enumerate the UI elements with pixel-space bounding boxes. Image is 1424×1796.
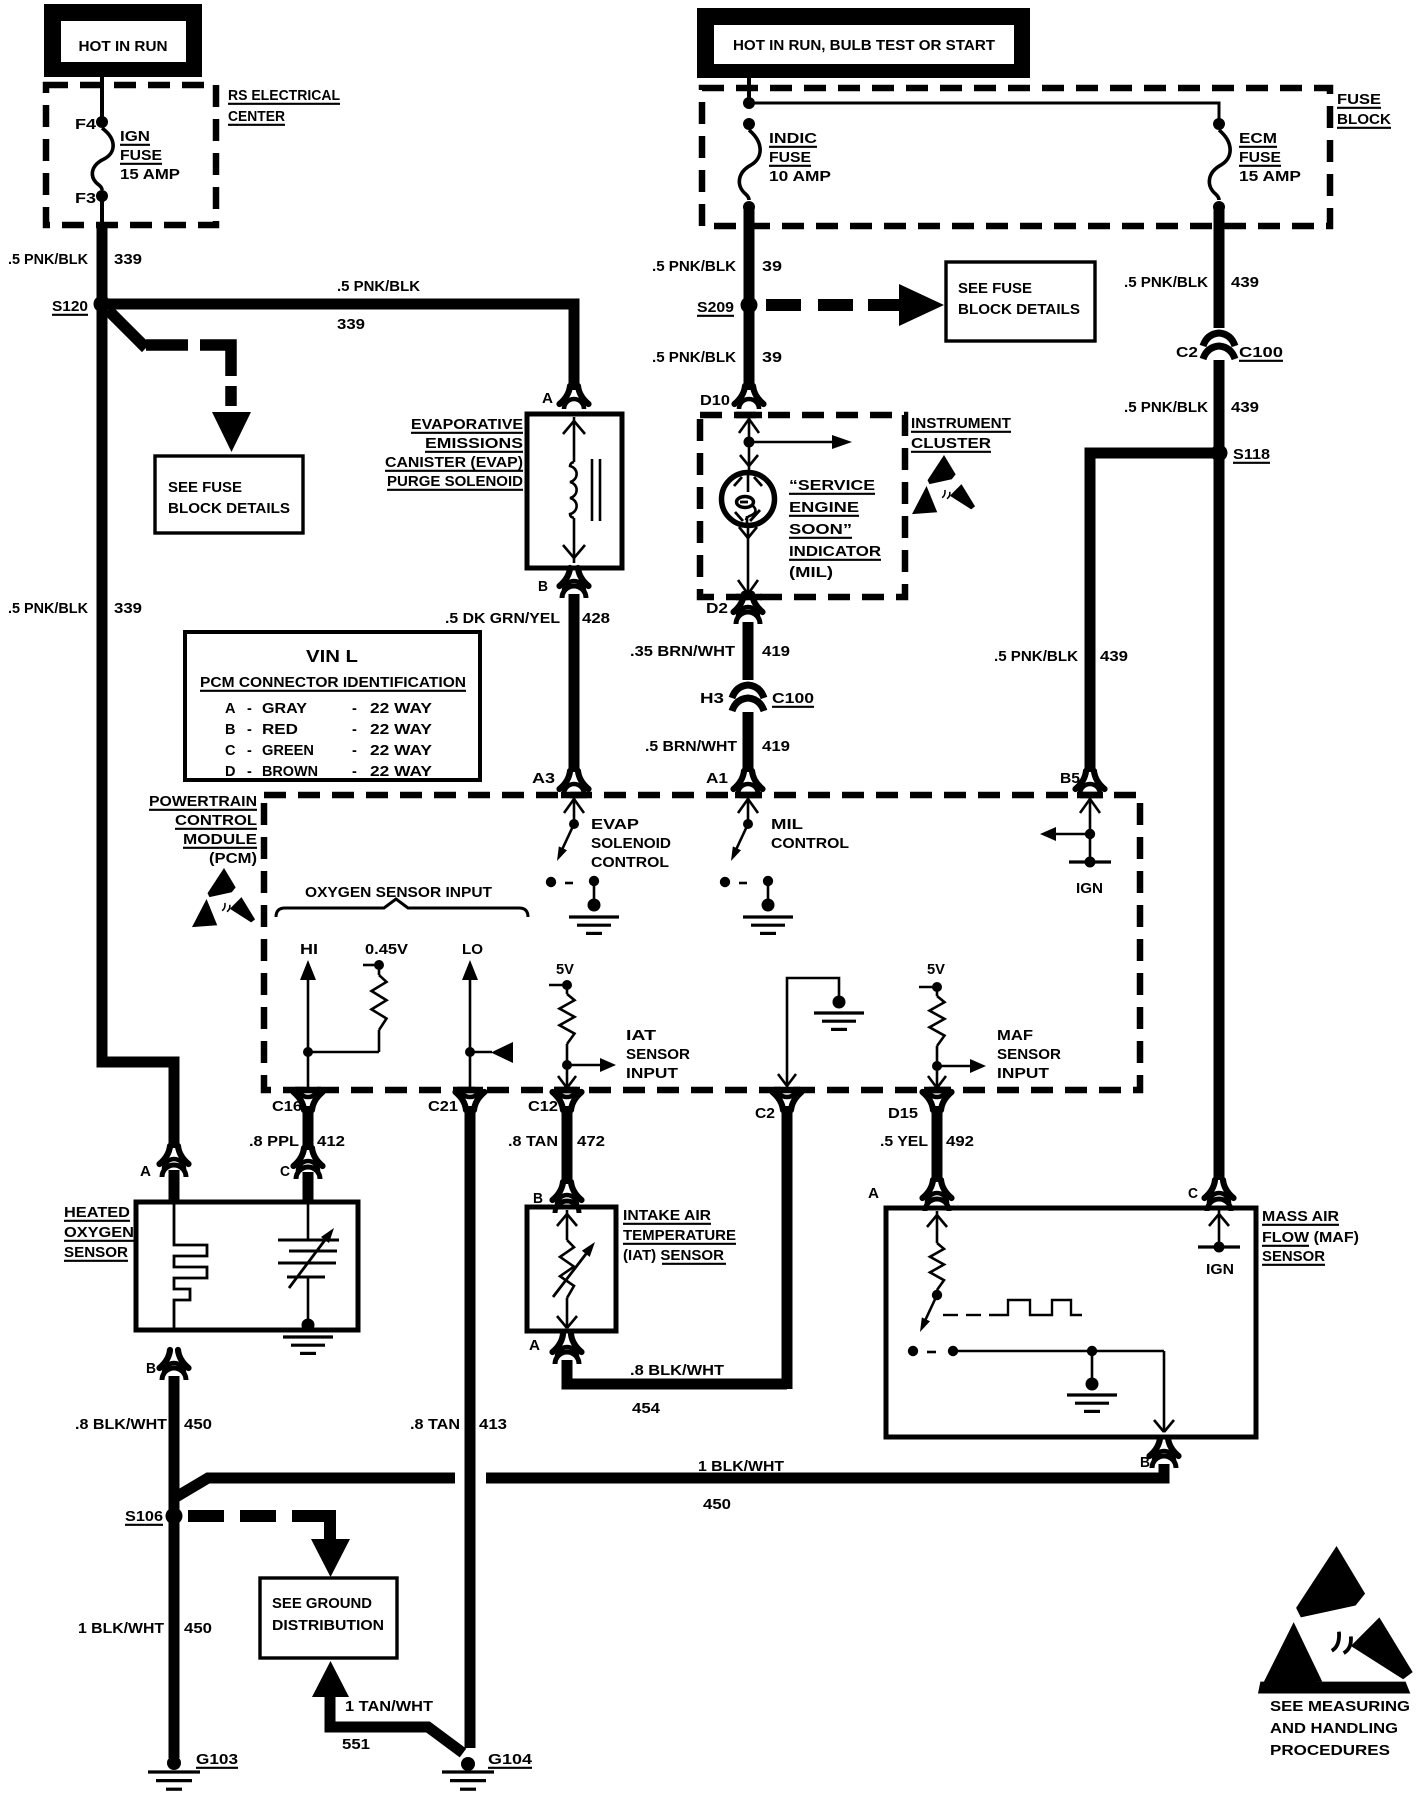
svg-text:.5 PNK/BLK: .5 PNK/BLK xyxy=(1124,400,1209,416)
box POWERTRAIN CONTROL MODULE (dashed) xyxy=(264,795,1140,1090)
label RS ELECTRICAL CENTER xyxy=(228,88,340,125)
svg-text:OXYGEN: OXYGEN xyxy=(64,1225,134,1241)
svg-text:15 AMP: 15 AMP xyxy=(120,167,180,183)
connector C12 xyxy=(528,1087,582,1115)
svg-text:S106: S106 xyxy=(125,1509,163,1525)
label .8 PPL 412 xyxy=(249,1134,345,1150)
svg-text:MASS AIR: MASS AIR xyxy=(1262,1209,1340,1225)
svg-text:CONTROL: CONTROL xyxy=(175,813,257,829)
svg-text:C: C xyxy=(225,743,236,759)
svg-text:.8 BLK/WHT: .8 BLK/WHT xyxy=(630,1363,724,1379)
svg-text:DISTRIBUTION: DISTRIBUTION xyxy=(272,1618,384,1634)
net C2 internal ground xyxy=(778,978,864,1088)
svg-text:5V: 5V xyxy=(556,962,574,978)
label .8 BLK/WHT 450 xyxy=(75,1417,212,1433)
svg-text:POWERTRAIN: POWERTRAIN xyxy=(149,794,257,810)
svg-text:10 AMP: 10 AMP xyxy=(769,169,831,185)
node fuse block feed xyxy=(743,97,755,109)
terminal F3 xyxy=(75,190,108,207)
svg-text:.8 TAN: .8 TAN xyxy=(410,1417,460,1433)
wire C12 pigtail .8 TAN 472 xyxy=(562,1106,573,1184)
svg-text:39: 39 xyxy=(762,350,782,366)
svg-text:“SERVICE: “SERVICE xyxy=(789,478,875,494)
IAT thermistor element xyxy=(553,1210,595,1328)
label .5 PNK/BLK 439 mid xyxy=(1124,400,1259,416)
svg-text:C: C xyxy=(280,1164,290,1180)
wire bulb to D2 with arrow xyxy=(738,525,758,594)
label MASS AIR FLOW (MAF) SENSOR xyxy=(1262,1209,1359,1265)
connector B5 xyxy=(1060,771,1105,794)
label 1 TAN/WHT 551 xyxy=(342,1699,433,1753)
svg-text:-: - xyxy=(352,743,357,759)
svg-text:B: B xyxy=(1140,1455,1150,1471)
svg-text:HI: HI xyxy=(300,942,318,958)
connector D10 xyxy=(700,386,764,409)
wire .5 PNK/BLK 339 (S120 to EVAP solenoid) xyxy=(102,304,574,390)
svg-text:(PCM): (PCM) xyxy=(209,851,257,867)
svg-text:-: - xyxy=(352,722,357,738)
terminal F4 xyxy=(75,116,108,133)
svg-text:OXYGEN SENSOR INPUT: OXYGEN SENSOR INPUT xyxy=(305,885,492,901)
svg-text:419: 419 xyxy=(762,644,790,660)
svg-text:EMISSIONS: EMISSIONS xyxy=(425,436,523,452)
svg-text:0.45V: 0.45V xyxy=(365,942,408,958)
connector D2 xyxy=(706,594,763,624)
svg-text:A: A xyxy=(140,1164,152,1180)
svg-text:B: B xyxy=(146,1361,156,1377)
MAF internal IGN xyxy=(1198,1210,1240,1278)
svg-text:454: 454 xyxy=(632,1401,660,1417)
MAF signal squiggle xyxy=(943,1300,1082,1315)
svg-text:C12: C12 xyxy=(528,1099,558,1115)
svg-text:.5 PNK/BLK: .5 PNK/BLK xyxy=(337,279,421,295)
svg-text:SOON”: SOON” xyxy=(789,522,852,538)
splice S106 xyxy=(125,1508,183,1526)
wire .5 PNK/BLK 439 (fuse to C100) xyxy=(1214,207,1225,328)
svg-text:450: 450 xyxy=(184,1417,212,1433)
svg-text:PURGE SOLENOID: PURGE SOLENOID xyxy=(387,474,523,490)
svg-text:1 TAN/WHT: 1 TAN/WHT xyxy=(345,1699,433,1715)
svg-text:INPUT: INPUT xyxy=(626,1066,678,1082)
svg-text:FUSE: FUSE xyxy=(120,148,162,164)
svg-text:.5 DK GRN/YEL: .5 DK GRN/YEL xyxy=(445,611,560,627)
HO2S sensing element xyxy=(278,1204,339,1332)
svg-text:S209: S209 xyxy=(697,300,734,316)
svg-text:339: 339 xyxy=(337,317,365,333)
wire F3 to RS box edge xyxy=(100,200,104,223)
wire C16 pigtail .8 PPL 412 xyxy=(303,1106,314,1150)
splice S209 xyxy=(697,297,758,317)
svg-text:492: 492 xyxy=(946,1134,974,1150)
arrow cluster to right xyxy=(749,435,852,449)
svg-text:MAF: MAF xyxy=(997,1028,1033,1044)
svg-text:MIL: MIL xyxy=(771,817,803,833)
svg-text:BLOCK: BLOCK xyxy=(1337,112,1392,128)
wire HOT IN RUN to F4 xyxy=(100,77,104,118)
svg-text:VIN L: VIN L xyxy=(306,646,358,666)
resistor 5V pull-up (MAF) xyxy=(919,962,986,1088)
connector D15 xyxy=(888,1087,952,1122)
svg-text:FLOW (MAF): FLOW (MAF) xyxy=(1262,1230,1359,1246)
svg-text:S118: S118 xyxy=(1233,447,1270,463)
svg-text:D15: D15 xyxy=(888,1106,918,1122)
connector C (HO2S) xyxy=(280,1148,323,1180)
svg-text:450: 450 xyxy=(184,1621,212,1637)
label EVAP SOLENOID CONTROL xyxy=(591,817,671,871)
label .5 PNK/BLK 439 top xyxy=(1124,275,1259,291)
connector B (IAT) xyxy=(533,1182,582,1213)
connector A1 xyxy=(706,771,763,794)
svg-text:CONTROL: CONTROL xyxy=(771,836,849,852)
svg-text:339: 339 xyxy=(114,601,142,617)
svg-text:HEATED: HEATED xyxy=(64,1205,130,1221)
svg-text:HOT IN RUN, BULB TEST OR START: HOT IN RUN, BULB TEST OR START xyxy=(733,38,995,54)
box INSTRUMENT CLUSTER (dashed) xyxy=(700,415,905,597)
connector C (MAF) xyxy=(1188,1180,1234,1211)
ground (HO2S case) xyxy=(283,1337,333,1353)
label SEE MEASURING AND HANDLING PROCEDURES xyxy=(1270,1699,1410,1759)
resistor 5V pull-up (IAT) xyxy=(549,962,616,1088)
wire .5 BRN/WHT 419 xyxy=(743,712,754,772)
svg-text:439: 439 xyxy=(1100,649,1128,665)
svg-text:551: 551 xyxy=(342,1737,370,1753)
svg-text:IAT: IAT xyxy=(626,1028,656,1044)
svg-text:EVAPORATIVE: EVAPORATIVE xyxy=(411,417,523,433)
svg-text:CENTER: CENTER xyxy=(228,109,285,125)
wire .5 PNK/BLK 339 (F3 to S120) xyxy=(97,222,108,300)
label .5 DK GRN/YEL 428 xyxy=(445,611,610,627)
svg-text:-: - xyxy=(247,764,252,780)
svg-text:SEE FUSE: SEE FUSE xyxy=(958,281,1032,297)
power label box HOT IN RUN, BULB TEST OR START xyxy=(697,8,1030,78)
wire HOT box to fuse block xyxy=(747,78,751,100)
svg-text:5V: 5V xyxy=(927,962,945,978)
svg-text:22 WAY: 22 WAY xyxy=(370,722,432,738)
wire .8 BLK/WHT 454 xyxy=(567,1360,787,1384)
svg-text:39: 39 xyxy=(762,259,782,275)
switch MIL control xyxy=(720,797,793,933)
label EVAPORATIVE EMISSIONS CANISTER (EVAP) PURGE SOLENOID xyxy=(385,417,523,490)
label .8 BLK/WHT 454 xyxy=(630,1363,724,1417)
label .8 TAN 413 xyxy=(410,1417,507,1433)
svg-text:IGN: IGN xyxy=(1076,881,1103,897)
label MAF SENSOR INPUT xyxy=(997,1028,1062,1082)
svg-text:439: 439 xyxy=(1231,275,1259,291)
label .5 PNK/BLK 39 upper xyxy=(652,259,782,275)
dashed arrow S209 to fuse-block note xyxy=(766,284,944,326)
table VIN L PCM connector identification xyxy=(185,632,480,780)
svg-text:B: B xyxy=(225,722,235,738)
svg-text:RED: RED xyxy=(262,722,298,738)
ground (MAF internal) xyxy=(1067,1351,1117,1411)
fuse IGN FUSE 15 AMP xyxy=(92,128,180,190)
svg-text:CANISTER (EVAP): CANISTER (EVAP) xyxy=(385,455,523,471)
MAF sensing element xyxy=(908,1211,958,1356)
connector C2 (PCM) xyxy=(755,1087,802,1122)
label .8 TAN 472 xyxy=(508,1134,605,1150)
svg-text:1 BLK/WHT: 1 BLK/WHT xyxy=(698,1459,784,1475)
svg-text:.5 PNK/BLK: .5 PNK/BLK xyxy=(8,252,89,268)
svg-text:.5 PNK/BLK: .5 PNK/BLK xyxy=(8,601,89,617)
svg-text:SENSOR: SENSOR xyxy=(626,1047,691,1063)
power label box HOT IN RUN xyxy=(44,4,202,77)
svg-text:TEMPERATURE: TEMPERATURE xyxy=(623,1228,736,1244)
wire .8 BLK/WHT 450 (B to S106) xyxy=(169,1376,180,1758)
switch EVAP solenoid control xyxy=(546,797,619,933)
svg-text:LO: LO xyxy=(462,942,483,958)
svg-text:INPUT: INPUT xyxy=(997,1066,1049,1082)
label SERVICE ENGINE SOON INDICATOR (MIL) xyxy=(789,478,882,581)
svg-text:.8 BLK/WHT: .8 BLK/WHT xyxy=(75,1417,167,1433)
svg-text:450: 450 xyxy=(703,1497,731,1513)
svg-text:C2: C2 xyxy=(1176,345,1198,361)
svg-text:IGN: IGN xyxy=(120,129,150,145)
label OXYGEN SENSOR INPUT xyxy=(305,885,492,901)
svg-text:ECM: ECM xyxy=(1239,131,1277,147)
svg-text:EVAP: EVAP xyxy=(591,817,639,833)
EVAP solenoid core lines xyxy=(592,459,600,521)
svg-text:CONTROL: CONTROL xyxy=(591,855,669,871)
svg-text:SENSOR: SENSOR xyxy=(1262,1249,1326,1265)
svg-text:F3: F3 xyxy=(75,191,96,207)
svg-text:.5 PNK/BLK: .5 PNK/BLK xyxy=(652,350,737,366)
svg-text:-: - xyxy=(247,743,252,759)
svg-text:SENSOR: SENSOR xyxy=(997,1047,1062,1063)
ESD symbol (instrument cluster) xyxy=(912,455,975,514)
svg-text:GREEN: GREEN xyxy=(262,743,314,759)
svg-text:472: 472 xyxy=(577,1134,605,1150)
ground G103 xyxy=(148,1752,238,1789)
svg-text:FUSE: FUSE xyxy=(1239,150,1281,166)
bracket oxygen sensor input xyxy=(276,899,528,917)
svg-text:ENGINE: ENGINE xyxy=(789,500,859,516)
svg-text:(IAT) SENSOR: (IAT) SENSOR xyxy=(623,1248,725,1264)
svg-text:D10: D10 xyxy=(700,393,730,409)
connector H3 C100 xyxy=(700,685,814,711)
indicator bulb MIL (SERVICE ENGINE SOON) xyxy=(722,473,775,526)
connector C2 C100 (bulkhead) xyxy=(1176,333,1283,361)
svg-text:.5 PNK/BLK: .5 PNK/BLK xyxy=(994,649,1079,665)
HO2S heater element xyxy=(174,1204,207,1328)
net HI (C16 input) xyxy=(300,942,318,1088)
ESD symbol (measuring and handling) xyxy=(1258,1546,1413,1694)
svg-text:SEE GROUND: SEE GROUND xyxy=(272,1596,372,1612)
svg-text:RS ELECTRICAL: RS ELECTRICAL xyxy=(228,88,340,104)
svg-text:INDIC: INDIC xyxy=(769,131,818,147)
svg-text:419: 419 xyxy=(762,739,790,755)
svg-text:B5: B5 xyxy=(1060,771,1080,787)
label .5 YEL 492 xyxy=(880,1134,974,1150)
svg-text:428: 428 xyxy=(582,611,610,627)
svg-text:INSTRUMENT: INSTRUMENT xyxy=(911,416,1011,432)
intake air temperature sensor box xyxy=(527,1207,616,1331)
svg-text:IGN: IGN xyxy=(1206,1262,1234,1278)
label .5 PNK/BLK 439 (B5 branch) xyxy=(994,649,1128,665)
label 1 BLK/WHT 450 (G103 leg) xyxy=(78,1621,212,1637)
svg-text:MODULE: MODULE xyxy=(183,832,257,848)
label IAT SENSOR INPUT xyxy=(626,1028,691,1082)
label .5 PNK/BLK 339 upper xyxy=(8,252,142,268)
net LO (C21 input) xyxy=(462,942,513,1088)
svg-text:C16: C16 xyxy=(272,1099,302,1115)
label FUSE BLOCK xyxy=(1337,92,1392,128)
splice S118 xyxy=(1211,445,1271,464)
label .35 BRN/WHT 419 xyxy=(630,644,790,660)
EVAP purge solenoid box xyxy=(527,414,622,568)
node cluster branch xyxy=(744,437,755,448)
label MIL CONTROL xyxy=(771,817,849,852)
svg-text:D2: D2 xyxy=(706,601,728,617)
svg-text:G104: G104 xyxy=(488,1752,532,1768)
svg-text:A: A xyxy=(868,1186,880,1202)
connector A (MAF) xyxy=(868,1180,952,1211)
svg-text:D: D xyxy=(225,764,235,780)
label POWERTRAIN CONTROL MODULE (PCM) xyxy=(149,794,257,867)
svg-text:G103: G103 xyxy=(196,1752,238,1768)
svg-text:PCM CONNECTOR IDENTIFICATION: PCM CONNECTOR IDENTIFICATION xyxy=(200,675,466,691)
dashed branch S120 to fuse-block note xyxy=(108,310,251,452)
svg-text:-: - xyxy=(247,701,252,717)
wire C2 to IAT ground junction xyxy=(782,1106,793,1389)
svg-text:339: 339 xyxy=(114,252,142,268)
wire A into HO2S box xyxy=(169,1170,180,1200)
label 1 BLK/WHT 450 xyxy=(698,1459,784,1513)
wire node to bulb xyxy=(740,442,758,473)
mass air flow sensor box xyxy=(886,1208,1256,1437)
connector A (EVAP) xyxy=(542,386,589,409)
svg-text:F4: F4 xyxy=(75,117,96,133)
dashed branch S106 to ground note xyxy=(188,1516,350,1577)
svg-text:22 WAY: 22 WAY xyxy=(370,701,432,717)
connector B (EVAP) xyxy=(538,568,589,598)
note box SEE GROUND DISTRIBUTION xyxy=(260,1578,397,1658)
svg-text:-: - xyxy=(352,701,357,717)
wire C into HO2S box xyxy=(303,1172,314,1200)
svg-text:22 WAY: 22 WAY xyxy=(370,743,432,759)
svg-text:.5 BRN/WHT: .5 BRN/WHT xyxy=(645,739,737,755)
svg-text:C100: C100 xyxy=(1239,345,1283,361)
svg-text:.8 TAN: .8 TAN xyxy=(508,1134,558,1150)
svg-text:22 WAY: 22 WAY xyxy=(370,764,432,780)
connector A (HO2S) xyxy=(140,1146,189,1180)
label .5 BRN/WHT 419 xyxy=(645,739,790,755)
svg-text:413: 413 xyxy=(479,1417,507,1433)
svg-text:SENSOR: SENSOR xyxy=(64,1245,129,1261)
connector C21 xyxy=(428,1087,485,1115)
svg-text:A: A xyxy=(529,1338,541,1354)
svg-text:C2: C2 xyxy=(755,1106,775,1122)
fuse ECM FUSE 15 AMP xyxy=(1209,118,1301,213)
box RS ELECTRICAL CENTER (dashed) xyxy=(46,85,216,225)
wire 1 BLK/WHT 450 (MAF B to S106) xyxy=(176,1464,1164,1497)
label .5 PNK/BLK 39 lower xyxy=(652,350,782,366)
label INSTRUMENT CLUSTER xyxy=(911,416,1011,452)
svg-text:439: 439 xyxy=(1231,400,1259,416)
svg-text:15 AMP: 15 AMP xyxy=(1239,169,1301,185)
heated oxygen sensor box xyxy=(136,1202,358,1330)
EVAP solenoid coil element xyxy=(563,417,585,563)
svg-text:-: - xyxy=(352,764,357,780)
wire .5 PNK/BLK 439 (C100 to S118) xyxy=(1214,360,1225,450)
svg-text:C21: C21 xyxy=(428,1099,458,1115)
svg-text:.35 BRN/WHT: .35 BRN/WHT xyxy=(630,644,735,660)
connector A3 xyxy=(532,771,589,794)
wire .35 BRN/WHT 419 xyxy=(743,622,754,680)
fuse INDIC FUSE 10 AMP xyxy=(739,118,831,213)
box FUSE BLOCK (dashed) xyxy=(702,88,1330,226)
svg-text:FUSE: FUSE xyxy=(1337,92,1381,108)
svg-text:BLOCK DETAILS: BLOCK DETAILS xyxy=(958,302,1080,318)
svg-text:H3: H3 xyxy=(700,691,724,707)
svg-text:INTAKE AIR: INTAKE AIR xyxy=(623,1208,712,1224)
label HEATED OXYGEN SENSOR xyxy=(64,1205,134,1261)
svg-text:1 BLK/WHT: 1 BLK/WHT xyxy=(78,1621,164,1637)
wire D15 pigtail .5 YEL 492 xyxy=(932,1106,943,1182)
wire .5 PNK/BLK 339 (S120 down to HO2S) xyxy=(102,308,174,1148)
connector B (HO2S) xyxy=(146,1350,189,1380)
svg-text:-: - xyxy=(247,722,252,738)
label .5 PNK/BLK 339 lower xyxy=(8,601,142,617)
svg-text:INDICATOR: INDICATOR xyxy=(789,544,882,560)
svg-text:S120: S120 xyxy=(52,299,88,315)
splice S120 xyxy=(52,296,111,316)
svg-text:B: B xyxy=(538,579,548,595)
label .5 PNK/BLK 339 horizontal xyxy=(337,279,421,333)
ground G104 xyxy=(442,1752,532,1789)
svg-text:PROCEDURES: PROCEDURES xyxy=(1270,1743,1390,1759)
note box SEE FUSE BLOCK DETAILS (right) xyxy=(946,262,1095,341)
wire .8 TAN 413 (C21 to G104) xyxy=(465,1106,476,1748)
svg-text:C: C xyxy=(1188,1186,1198,1202)
svg-text:SEE MEASURING: SEE MEASURING xyxy=(1270,1699,1410,1715)
wire .5 DK GRN/YEL 428 xyxy=(569,594,580,772)
svg-text:A3: A3 xyxy=(532,771,555,787)
wire S118 branch to B5 xyxy=(1090,453,1213,772)
svg-text:A: A xyxy=(542,391,554,407)
svg-text:412: 412 xyxy=(317,1134,345,1150)
IGN feed (B5) with arrow xyxy=(1040,797,1111,897)
svg-text:(MIL): (MIL) xyxy=(789,565,833,581)
wire cluster feed with arrow xyxy=(739,417,759,442)
svg-text:GRAY: GRAY xyxy=(262,701,307,717)
svg-text:FUSE: FUSE xyxy=(769,150,811,166)
svg-text:CLUSTER: CLUSTER xyxy=(911,436,992,452)
wire 1 TAN/WHT 551 (G104 to ground distribution) xyxy=(312,1661,463,1753)
svg-text:BLOCK DETAILS: BLOCK DETAILS xyxy=(168,501,290,517)
wire .5 PNK/BLK 439 (S118 to MAF) xyxy=(1214,453,1225,1180)
svg-text:SEE FUSE: SEE FUSE xyxy=(168,480,242,496)
label INTAKE AIR TEMPERATURE (IAT) SENSOR xyxy=(623,1208,736,1264)
svg-text:.8 PPL: .8 PPL xyxy=(249,1134,299,1150)
svg-text:.5 PNK/BLK: .5 PNK/BLK xyxy=(1124,275,1209,291)
connector B (MAF) xyxy=(1140,1438,1179,1471)
connector C16 xyxy=(272,1087,323,1115)
ESD symbol (PCM) xyxy=(192,868,255,927)
svg-text:.5 PNK/BLK: .5 PNK/BLK xyxy=(652,259,737,275)
svg-text:.5 YEL: .5 YEL xyxy=(880,1134,928,1150)
svg-text:SOLENOID: SOLENOID xyxy=(591,836,671,852)
svg-text:A1: A1 xyxy=(706,771,728,787)
svg-text:BROWN: BROWN xyxy=(262,764,318,780)
MAF output net to B xyxy=(953,1346,1174,1432)
svg-text:HOT IN RUN: HOT IN RUN xyxy=(79,39,168,55)
connector A (IAT) xyxy=(529,1334,582,1364)
wire .5 PNK/BLK 39 (fuse to S209) xyxy=(744,207,755,390)
wire fuse block internal bus xyxy=(749,103,1219,120)
note box SEE FUSE BLOCK DETAILS (left) xyxy=(155,456,303,533)
svg-text:A: A xyxy=(225,701,236,717)
svg-text:C100: C100 xyxy=(772,691,814,707)
